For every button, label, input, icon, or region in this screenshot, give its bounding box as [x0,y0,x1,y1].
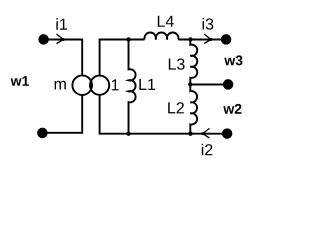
wire transformer secondary bottom / bottom rail [100,95,228,134]
wire transformer secondary top / top rail [100,40,145,76]
junction node L1 bottom [126,132,130,136]
current arrow i1 [57,34,65,44]
port w1 terminal (bottom) [37,128,48,139]
port w1 terminal (top) [38,34,49,45]
inductor L4 [144,33,178,40]
transformer primary winding (circle) [72,75,92,95]
port w2 terminal (upper) [223,79,234,90]
junction node mid-right (L3/L2/w2) [188,82,192,86]
label L4 [158,16,174,27]
current arrow i2 [201,128,209,138]
inductor L2 [190,85,197,134]
junction node bottom-right (L2 bottom) [188,132,192,136]
current arrow i3 [204,34,212,44]
label w2 [223,104,241,114]
junction node L1 top [126,37,130,41]
port w2 terminal (lower / i2 side) [222,128,233,139]
label w1 [11,76,29,86]
wire L4 to w3 [178,39,226,41]
wire transformer primary bottom to w1 bottom [42,95,82,133]
label w3 [224,55,242,65]
label i2 [202,144,213,156]
label i3 [203,18,214,30]
label i1 [56,18,67,30]
inductor L3 [190,40,197,85]
transformer secondary winding (circle) [90,76,109,95]
inductor L1 [129,40,136,134]
wire w1 top to transformer primary [44,40,83,76]
port w3 terminal [221,34,232,45]
label m (turns ratio primary) [55,81,66,90]
label L3 [169,58,185,69]
label L2 [168,102,184,113]
junction node top-right (L4/L3/w3) [188,37,192,41]
wire to w2 terminal [190,84,228,86]
label L1 [139,79,155,90]
label 1 (turns ratio secondary) [112,79,119,90]
